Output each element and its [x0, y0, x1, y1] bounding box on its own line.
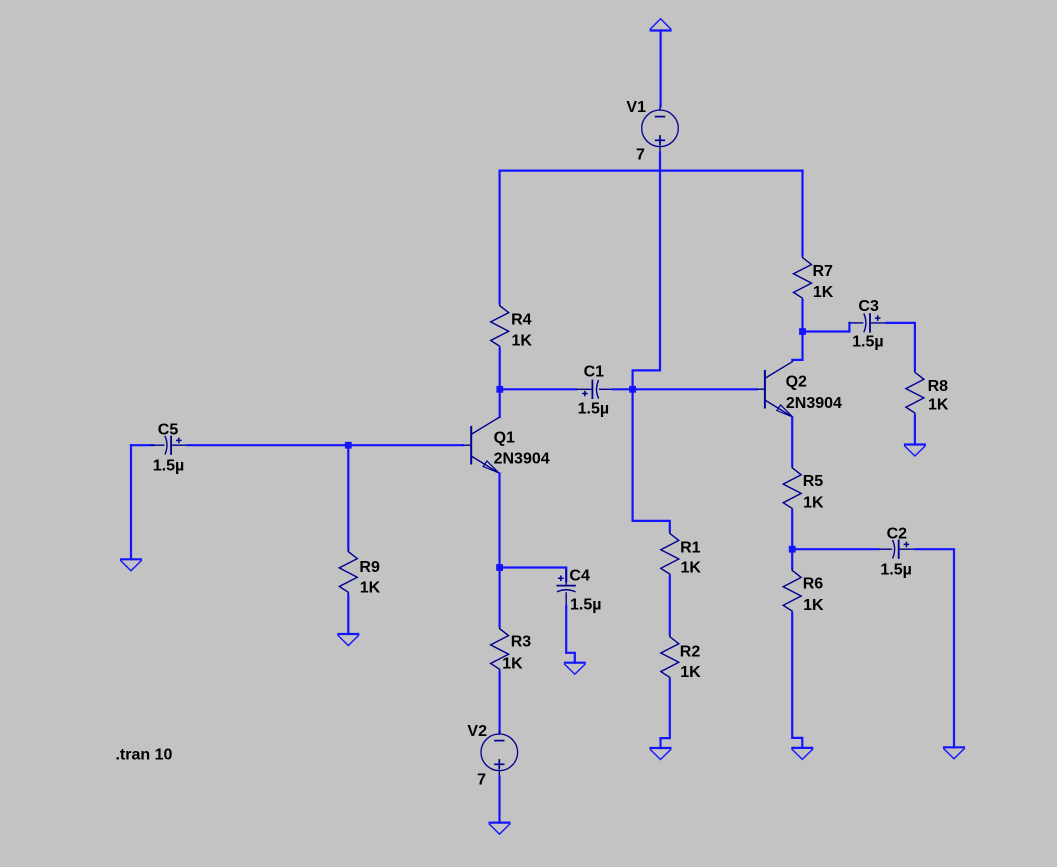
wire node to R9: [347, 445, 349, 549]
svg-text:C4: C4: [569, 567, 590, 584]
wire C5 to Q1 base: [188, 444, 463, 446]
wire R9 to ground: [347, 595, 349, 634]
wire C4 to ground: [566, 606, 575, 663]
svg-text:C3: C3: [858, 298, 879, 315]
ground under C5: [120, 559, 142, 571]
wire node to C4: [500, 568, 567, 582]
svg-text:R3: R3: [511, 634, 532, 651]
wire R2 to ground: [661, 680, 670, 748]
svg-text:R5: R5: [803, 473, 824, 490]
junction node R5 / R6 / C2: [789, 546, 796, 553]
svg-text:C1: C1: [584, 364, 605, 381]
svg-text:1K: 1K: [803, 597, 824, 614]
svg-text:1K: 1K: [502, 656, 523, 673]
junction node Q2 base / C1 / R1 / V1: [629, 386, 636, 393]
wire R3 to V2: [499, 672, 501, 733]
svg-text:1K: 1K: [512, 333, 533, 350]
resistor R2: [661, 634, 701, 681]
junction node Q2 collector / R7 / C3: [799, 328, 806, 335]
ground under C4: [564, 663, 586, 675]
wire C1 to base node: [613, 388, 633, 390]
svg-text:7: 7: [636, 147, 645, 164]
svg-text:1K: 1K: [681, 559, 702, 576]
voltage source V1: [626, 99, 678, 164]
svg-text:1.5µ: 1.5µ: [880, 562, 911, 579]
svg-text:R8: R8: [928, 378, 949, 395]
wire node to Q2 collector: [792, 332, 802, 360]
svg-text:C2: C2: [887, 526, 908, 543]
svg-text:1.5µ: 1.5µ: [852, 333, 883, 350]
svg-text:7: 7: [477, 772, 486, 789]
wire R1 to R2: [669, 576, 671, 634]
svg-text:V1: V1: [626, 99, 646, 116]
capacitor C2: [878, 526, 915, 579]
svg-text:1.5µ: 1.5µ: [153, 457, 184, 474]
ground under V2: [489, 823, 511, 835]
wire Q1 emitter down: [498, 474, 500, 568]
wire node to C2: [792, 548, 878, 550]
wire R8 to ground: [914, 415, 916, 444]
resistor R1: [661, 531, 702, 576]
wire base node to Q2: [633, 388, 757, 390]
capacitor C5: [151, 422, 188, 475]
junction node Q1 collector / R4 / C1: [496, 386, 503, 393]
svg-text:1K: 1K: [928, 396, 949, 413]
resistor R4: [491, 303, 533, 349]
wire base node to R1: [633, 389, 670, 531]
ground under R6: [791, 748, 813, 760]
svg-text:R1: R1: [680, 539, 701, 556]
svg-text:R2: R2: [680, 643, 701, 660]
svg-text:1K: 1K: [813, 284, 834, 301]
ground under R9: [337, 634, 359, 646]
wire C5 left down: [130, 445, 132, 559]
voltage source V2: [467, 723, 517, 789]
wire C5 left: [131, 444, 154, 446]
svg-text:2N3904: 2N3904: [786, 395, 842, 412]
svg-text:1K: 1K: [360, 579, 381, 596]
svg-text:1K: 1K: [680, 664, 701, 681]
wire V2 to ground: [498, 777, 500, 823]
wire node to C3: [803, 323, 850, 332]
svg-text:R7: R7: [813, 263, 834, 280]
wire R6 to ground: [792, 613, 802, 748]
wire rail to R7: [801, 171, 803, 256]
resistor R6: [783, 568, 824, 614]
wire C3 to R8: [887, 323, 915, 370]
wire R5 to R6: [791, 511, 793, 568]
transistor Q2 (NPN 2N3904): [757, 361, 843, 417]
resistor R9: [339, 549, 380, 596]
junction node Q1 emitter / C4 / R3: [496, 564, 503, 571]
svg-text:R6: R6: [803, 576, 824, 593]
transistor Q1 (NPN 2N3904): [463, 417, 550, 473]
svg-text:.tran 10: .tran 10: [116, 747, 173, 764]
ground under C2: [943, 747, 965, 759]
wire C2 to ground: [915, 549, 954, 747]
svg-text:V2: V2: [467, 723, 487, 740]
wire R7 to node: [801, 301, 803, 332]
capacitor C3: [849, 298, 886, 350]
ground under R2: [650, 748, 672, 760]
wire arrow to V1: [659, 31, 661, 107]
junction node Q1 base / C5 / R9: [345, 442, 352, 449]
resistor R3: [491, 626, 532, 672]
wire rail to R4: [499, 171, 501, 304]
wire R4 to Q1 collector: [499, 349, 501, 418]
resistor R8: [906, 370, 949, 415]
svg-text:1.5µ: 1.5µ: [578, 400, 609, 417]
svg-text:R9: R9: [359, 559, 380, 576]
wire node to R3: [499, 568, 501, 627]
capacitor C4: [557, 567, 602, 613]
resistor R7: [794, 255, 834, 301]
svg-text:1K: 1K: [803, 495, 824, 512]
resistor R5: [783, 466, 824, 512]
wire top rail: [500, 170, 803, 172]
wire Q2 emitter to R5: [791, 417, 793, 465]
wire V1 to base node: [633, 153, 660, 390]
svg-text:R4: R4: [511, 311, 532, 328]
svg-text:Q2: Q2: [786, 373, 807, 390]
svg-text:C5: C5: [158, 422, 179, 439]
wire node to C1: [500, 388, 576, 390]
ground symbol (flipped, points up) at V1 minus: [650, 19, 672, 31]
capacitor C1: [576, 364, 613, 418]
svg-text:Q1: Q1: [494, 430, 515, 447]
ground under R8: [904, 445, 926, 457]
svg-text:2N3904: 2N3904: [494, 451, 550, 468]
svg-text:1.5µ: 1.5µ: [570, 596, 601, 613]
